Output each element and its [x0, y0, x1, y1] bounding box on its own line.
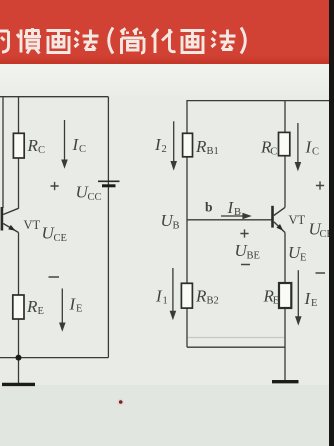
svg-text:CE: CE — [54, 233, 67, 244]
svg-text:R: R — [27, 136, 39, 155]
resistor RC (right) — [279, 132, 290, 155]
svg-text:BE: BE — [247, 251, 260, 262]
wire: bottom rail — [0, 357, 108, 359]
wire: bias branch bottom horizontal — [187, 346, 285, 348]
right dark strip — [329, 0, 334, 446]
title char 画 — [47, 31, 71, 53]
svg-text:C: C — [270, 147, 277, 158]
transistor VT (left) — [1, 207, 19, 233]
battery UCC short thick plate — [102, 184, 116, 187]
minus sign (UBE -) — [241, 264, 250, 266]
faint streak line — [188, 337, 284, 339]
svg-text:R: R — [26, 297, 38, 316]
svg-text:VT: VT — [289, 213, 306, 227]
svg-text:R: R — [195, 287, 207, 306]
current arrow IC (right) — [297, 123, 299, 163]
title char ） — [241, 28, 245, 54]
svg-text:E: E — [311, 298, 317, 309]
wire: bias branch between RB1 RB2 — [186, 157, 188, 283]
wire: emitter branch below RE — [18, 319, 20, 358]
svg-text:b: b — [205, 200, 213, 215]
wire: bias branch above RB1 — [186, 101, 188, 134]
svg-text:C: C — [312, 147, 319, 158]
ground symbol left — [2, 383, 35, 386]
svg-text:C: C — [38, 145, 45, 156]
current arrow IB — [221, 215, 244, 217]
wire: emitter branch below transistor — [18, 233, 20, 296]
transistor VT (right) — [271, 206, 285, 233]
minus sign (UCE -, right) — [316, 272, 326, 274]
minus sign (UCE -, left) — [49, 276, 60, 278]
wire: ground stub — [18, 358, 20, 383]
plus sign (UCE +, left) — [51, 182, 59, 190]
svg-text:CC: CC — [88, 192, 102, 203]
resistor RE (left) — [13, 295, 24, 319]
current arrow I1 — [172, 268, 174, 312]
red title banner — [0, 0, 334, 64]
svg-text:E: E — [273, 296, 279, 307]
current arrow IE (right) — [297, 270, 299, 317]
svg-text:B: B — [173, 221, 180, 232]
svg-text:B: B — [234, 207, 241, 218]
title char 法 — [75, 30, 99, 50]
wire: collector branch below RC — [18, 158, 20, 209]
labels left circuit — [24, 135, 102, 317]
laser pointer dot — [117, 398, 124, 405]
wire: emitter branch below RE to ground — [284, 308, 286, 380]
plus sign (UBE +) — [240, 229, 248, 237]
title char 化 — [152, 29, 176, 53]
battery UCC long plate — [98, 180, 120, 182]
resistor RC (left) — [13, 133, 24, 158]
current arrow IC (left) — [64, 120, 66, 161]
darker lower background band — [0, 385, 334, 446]
current arrow IE (left) — [61, 289, 63, 324]
svg-text:R: R — [195, 137, 207, 156]
title char 惯 — [17, 28, 41, 54]
svg-text:VT: VT — [24, 218, 41, 232]
wire: collector branch above RC — [284, 101, 286, 133]
labels right circuit — [154, 135, 333, 309]
svg-text:1: 1 — [163, 296, 168, 307]
light band under banner — [0, 63, 334, 97]
title char 法 (second) — [212, 30, 236, 50]
wire: collector branch below RC — [284, 156, 286, 208]
title char 简 — [121, 29, 145, 55]
svg-text:E: E — [76, 304, 82, 315]
svg-text:B2: B2 — [207, 296, 219, 307]
wire: base wire — [187, 219, 272, 221]
wire: right supply rail — [107, 97, 109, 358]
wire: base branch vertical (cut at image edge) — [2, 97, 4, 208]
svg-text:2: 2 — [162, 144, 167, 155]
ground symbol right — [272, 380, 299, 383]
wire: collector branch top — [18, 97, 20, 134]
wire: right top rail — [186, 100, 329, 102]
resistor RB2 — [181, 283, 192, 308]
title char 画 (second) — [181, 31, 205, 53]
wire: emitter branch above RE — [284, 233, 286, 284]
wire: bias branch below RB2 — [186, 308, 188, 347]
svg-text:E: E — [300, 253, 306, 264]
svg-text:B1: B1 — [207, 146, 219, 157]
title char （ — [109, 28, 113, 54]
resistor RE (right) — [279, 283, 291, 308]
svg-text:E: E — [38, 306, 44, 317]
resistor RB1 — [183, 133, 193, 157]
plus sign (UCE +, right) — [316, 181, 324, 189]
svg-text:C: C — [79, 144, 86, 155]
junction dot bottom-left — [16, 355, 22, 361]
current arrow I2 — [173, 121, 175, 162]
wire: left top rail — [0, 96, 108, 98]
title char 习 (partial) — [0, 31, 9, 52]
